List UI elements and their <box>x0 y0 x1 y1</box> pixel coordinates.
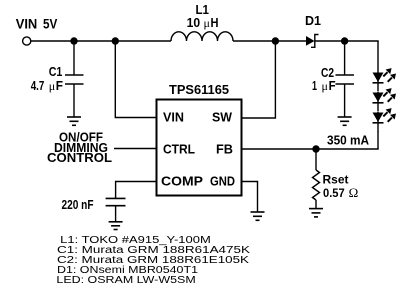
svg-text:0.57: 0.57 <box>323 187 345 200</box>
svg-text:C1: C1 <box>49 64 63 79</box>
svg-text:10: 10 <box>187 15 201 30</box>
svg-text:220 nF: 220 nF <box>62 197 94 212</box>
wire Rset top <box>315 149 317 170</box>
svg-text:VIN: VIN <box>163 110 184 125</box>
LED D3 (middle) <box>373 88 397 111</box>
capacitor C2 plates <box>336 75 355 84</box>
node VIN input terminal <box>23 37 31 45</box>
svg-text:VIN: VIN <box>16 17 38 33</box>
wire D1 to top-right corner <box>315 40 379 42</box>
LED D4 (bottom) <box>373 108 397 131</box>
wire COMP to C3 <box>116 182 157 199</box>
svg-text:μ: μ <box>322 79 328 93</box>
svg-text:4.7: 4.7 <box>31 78 45 93</box>
svg-text:350 mA: 350 mA <box>327 133 369 148</box>
svg-text:μ: μ <box>49 79 55 93</box>
svg-text:LED: OSRAM LW-W5SM: LED: OSRAM LW-W5SM <box>56 275 195 286</box>
LED D2 (top) <box>373 68 397 91</box>
capacitor C1 plates <box>65 75 84 84</box>
ground below C1 <box>67 117 81 125</box>
wire C2 branch <box>344 41 346 75</box>
svg-text:F: F <box>329 78 336 93</box>
junction node at FB/Rset <box>312 145 319 152</box>
svg-text:μ: μ <box>204 16 210 30</box>
junction node at C2 tap <box>341 37 348 44</box>
svg-text:FB: FB <box>216 142 233 157</box>
junction node at SW/L1/D1 <box>272 37 279 44</box>
diode D1 schottky <box>306 35 319 48</box>
svg-text:GND: GND <box>210 174 235 189</box>
svg-text:F: F <box>56 78 63 93</box>
ground below C3 <box>109 222 123 230</box>
wire VIN branch to chip <box>115 41 156 118</box>
svg-text:CTRL: CTRL <box>163 142 195 157</box>
svg-text:5V: 5V <box>43 17 58 33</box>
wire L1 to D1 <box>233 40 306 42</box>
svg-text:TPS61165: TPS61165 <box>169 82 230 97</box>
wire top-right corner down to LED string <box>377 41 379 72</box>
junction node at VIN chip tap <box>112 37 119 44</box>
op-amp U1 TPS61165 body <box>157 100 242 196</box>
svg-text:H: H <box>211 15 219 30</box>
ground below Rset <box>309 209 323 217</box>
ground below GND pin <box>251 212 265 220</box>
wire GND pin to ground <box>242 182 258 213</box>
wire VIN terminal to L1 <box>31 40 171 42</box>
svg-text:COMP: COMP <box>161 174 203 189</box>
junction node at C1 tap <box>70 37 77 44</box>
wire Rset bottom <box>315 200 317 209</box>
svg-text:Rset: Rset <box>323 174 349 187</box>
resistor Rset zigzag <box>313 170 320 200</box>
wire C1 branch <box>73 41 75 75</box>
wire FB to Rset and LED bottom <box>242 148 379 150</box>
svg-text:1: 1 <box>312 78 317 93</box>
wire CTRL input <box>114 148 157 150</box>
svg-text:CONTROL: CONTROL <box>47 150 112 165</box>
capacitor C3 220nF plates <box>106 198 126 205</box>
ground below C2 <box>338 117 352 125</box>
svg-text:Ω: Ω <box>349 185 359 200</box>
wire LED bottom corner <box>377 131 379 149</box>
svg-text:D1: D1 <box>305 13 322 28</box>
wire SW to inductor-diode node <box>242 41 276 118</box>
inductor L1 <box>171 32 233 41</box>
svg-text:SW: SW <box>212 110 232 125</box>
